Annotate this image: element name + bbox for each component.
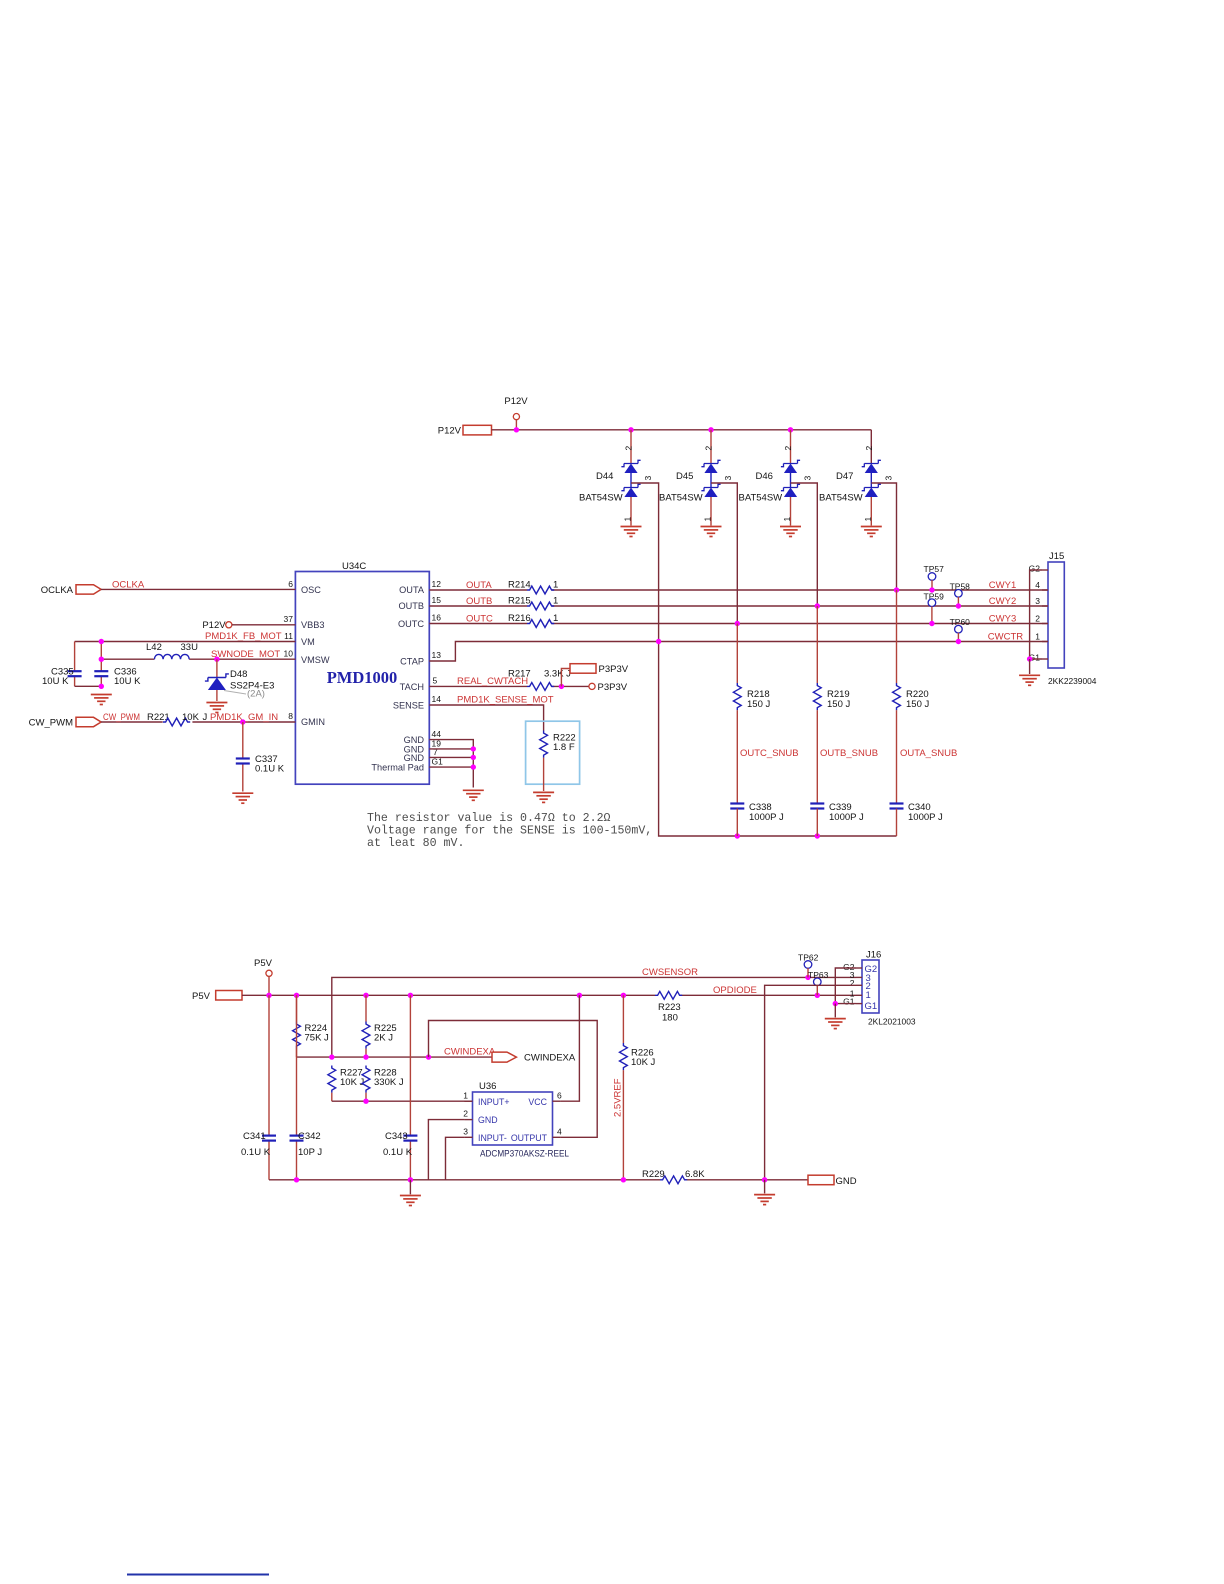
- svg-text:1: 1: [703, 517, 713, 522]
- wire CWSENSOR net: [332, 977, 856, 1057]
- diode D48 SS2P4-E3: [205, 659, 274, 701]
- svg-text:TACH: TACH: [400, 682, 424, 692]
- wire bottom GND bus: [269, 1179, 808, 1181]
- resistor R216 1: [508, 613, 558, 627]
- svg-text:2: 2: [783, 446, 793, 451]
- wire G1 ground stub: [1029, 659, 1031, 674]
- wire D45 pin3 elbow: [711, 483, 737, 624]
- resistor R222 1.8 F boxed: [526, 721, 580, 791]
- svg-text:15: 15: [432, 595, 442, 605]
- svg-text:L42: L42: [146, 642, 162, 653]
- resistor R221 10K J: [147, 712, 208, 726]
- svg-text:R214: R214: [508, 580, 531, 591]
- wire D46 pin3 elbow: [791, 483, 818, 606]
- svg-text:OCLKA: OCLKA: [112, 580, 145, 591]
- node rail junctions: [514, 427, 794, 432]
- svg-text:4: 4: [557, 1126, 562, 1136]
- svg-text:3: 3: [883, 476, 893, 481]
- svg-text:6.8K: 6.8K: [685, 1169, 705, 1180]
- svg-text:C342: C342: [298, 1131, 321, 1142]
- svg-text:CW_PWM: CW_PWM: [103, 712, 140, 723]
- svg-text:2: 2: [850, 978, 855, 988]
- svg-text:P3P3V: P3P3V: [598, 682, 628, 693]
- svg-text:CWINDEXA: CWINDEXA: [524, 1053, 576, 1064]
- svg-text:2KK2239004: 2KK2239004: [1048, 676, 1097, 686]
- svg-text:D47: D47: [836, 471, 853, 482]
- op-amp U34C PMD1000: [284, 561, 444, 784]
- wire P12V stub: [515, 420, 517, 430]
- svg-text:0.1U K: 0.1U K: [241, 1147, 271, 1158]
- svg-text:3.3K J: 3.3K J: [544, 669, 571, 680]
- wire VM net: [75, 641, 296, 643]
- capacitor C341 0.1U K: [241, 995, 276, 1180]
- svg-text:1000P J: 1000P J: [829, 812, 864, 823]
- svg-text:OPDIODE: OPDIODE: [713, 985, 757, 996]
- svg-text:2: 2: [864, 446, 874, 451]
- resistor R218 150 J: [733, 624, 770, 803]
- svg-text:11: 11: [284, 631, 293, 641]
- svg-text:BAT54SW: BAT54SW: [819, 493, 863, 504]
- svg-text:2: 2: [463, 1109, 468, 1119]
- svg-text:BAT54SW: BAT54SW: [739, 493, 783, 504]
- ground C336: [91, 695, 112, 705]
- svg-text:5: 5: [433, 676, 438, 686]
- svg-text:J: J: [203, 712, 208, 723]
- svg-text:CWY3: CWY3: [989, 614, 1016, 625]
- wire U36 OUTPUT pin4 loop: [429, 1021, 598, 1138]
- diode D46 BAT54SW: [739, 430, 813, 526]
- svg-text:PMD1K_SENSE_MOT: PMD1K_SENSE_MOT: [457, 695, 554, 706]
- wire OUTC net: [429, 623, 1048, 625]
- svg-text:ADCMP370AKSZ-REEL: ADCMP370AKSZ-REEL: [480, 1149, 569, 1160]
- svg-text:D45: D45: [676, 471, 693, 482]
- resistor R226 10K J: [620, 995, 656, 1180]
- svg-text:CWCTR: CWCTR: [988, 632, 1023, 643]
- wire D44 pin3 elbow: [631, 483, 659, 642]
- svg-text:BAT54SW: BAT54SW: [659, 493, 703, 504]
- svg-text:CWY1: CWY1: [989, 580, 1016, 591]
- svg-text:GND: GND: [478, 1115, 498, 1125]
- node P5V rail junctions: [266, 993, 820, 998]
- svg-text:75K J: 75K J: [305, 1033, 330, 1044]
- wire U36 VCC pin6: [561, 995, 580, 1101]
- svg-text:10K J: 10K J: [631, 1057, 656, 1068]
- power terminal P5V: [254, 958, 273, 976]
- svg-text:SWNODE_MOT: SWNODE_MOT: [211, 649, 280, 660]
- svg-text:1.8 F: 1.8 F: [553, 742, 575, 753]
- svg-text:16: 16: [432, 613, 442, 623]
- svg-text:G1: G1: [843, 996, 855, 1006]
- svg-text:P3P3V: P3P3V: [599, 664, 629, 675]
- svg-text:OCLKA: OCLKA: [41, 585, 74, 596]
- diode D47 BAT54SW: [819, 430, 893, 526]
- svg-text:R217: R217: [508, 669, 531, 680]
- svg-text:OUTB_SNUB: OUTB_SNUB: [820, 748, 878, 759]
- svg-text:INPUT-: INPUT-: [478, 1133, 507, 1143]
- svg-text:1: 1: [553, 613, 558, 624]
- node CWINDEXA junctions: [329, 1054, 431, 1059]
- svg-text:GND: GND: [404, 753, 425, 763]
- svg-text:1: 1: [553, 596, 558, 607]
- svg-text:1: 1: [782, 517, 792, 522]
- wire P3P3V stub: [561, 669, 570, 687]
- port P12V: [438, 425, 492, 436]
- wire snubber left vertical: [659, 642, 897, 837]
- svg-text:OUTC_SNUB: OUTC_SNUB: [740, 748, 799, 759]
- svg-text:150 J: 150 J: [906, 699, 929, 710]
- ground D46: [780, 527, 801, 537]
- svg-text:1: 1: [463, 1091, 468, 1101]
- wire OUTB net: [429, 605, 1048, 607]
- wire CWINDEXA row: [297, 1056, 493, 1058]
- svg-text:150 J: 150 J: [747, 699, 770, 710]
- svg-text:8: 8: [288, 711, 293, 721]
- capacitor C336 10U K: [94, 642, 141, 688]
- node TACH junction: [559, 684, 564, 689]
- svg-text:The resistor value is 0.47Ω to: The resistor value is 0.47Ω to 2.2Ω: [367, 812, 611, 825]
- power terminal P12V at VBB3: [202, 620, 232, 631]
- svg-text:10U K: 10U K: [114, 676, 141, 687]
- resistor R219 150 J: [813, 606, 850, 803]
- ground D44: [621, 527, 642, 537]
- ground U34C: [463, 790, 484, 800]
- svg-text:2: 2: [704, 446, 714, 451]
- wire GMIN net: [101, 721, 295, 723]
- svg-text:180: 180: [662, 1013, 678, 1024]
- connector J16 2KL2021003: [843, 950, 916, 1027]
- svg-text:OUTC: OUTC: [398, 619, 424, 629]
- op-amp U36 ADCMP370AKSZ-REEL: [463, 1081, 569, 1160]
- port CWINDEXA: [492, 1052, 576, 1064]
- svg-text:14: 14: [432, 694, 442, 704]
- svg-text:U36: U36: [479, 1081, 496, 1092]
- svg-text:OUTB: OUTB: [398, 601, 424, 611]
- wire SENSE net: [429, 705, 543, 731]
- svg-text:G2: G2: [1029, 564, 1041, 574]
- svg-text:R216: R216: [508, 613, 531, 624]
- resistor R223 180: [655, 991, 682, 1023]
- ground GND bus: [400, 1196, 421, 1206]
- resistor R214 1: [508, 580, 558, 594]
- wire U36 INPUT- pin3: [446, 1137, 465, 1180]
- svg-text:SENSE: SENSE: [393, 701, 424, 711]
- bottom blue line: [127, 1574, 269, 1576]
- capacitor C335 10U K: [42, 642, 82, 688]
- resistor R220 150 J: [893, 590, 930, 803]
- resistor R217 3.3K J: [508, 669, 571, 691]
- svg-text:1: 1: [623, 517, 633, 522]
- ground J16: [825, 1019, 846, 1029]
- svg-text:3: 3: [463, 1126, 468, 1136]
- resistor R215 1: [508, 596, 558, 610]
- note text: [367, 812, 652, 850]
- wire cap bottom: [75, 685, 102, 687]
- svg-text:J16: J16: [866, 950, 881, 961]
- port OCLKA: [41, 585, 101, 596]
- svg-text:G1: G1: [865, 1001, 878, 1012]
- testpoint TP63: [808, 970, 829, 995]
- testpoint TP59: [924, 592, 945, 627]
- svg-text:150 J: 150 J: [827, 699, 850, 710]
- ground C337: [232, 793, 253, 803]
- svg-text:3: 3: [643, 476, 653, 481]
- svg-text:CWY2: CWY2: [989, 596, 1016, 607]
- svg-text:1000P J: 1000P J: [908, 812, 943, 823]
- svg-text:2KL2021003: 2KL2021003: [868, 1017, 916, 1027]
- wire C343 ground stub: [409, 1180, 411, 1195]
- node GND junctions: [471, 746, 476, 770]
- svg-text:VCC: VCC: [528, 1097, 547, 1107]
- capacitor C337 0.1U K: [236, 722, 285, 792]
- svg-text:10K J: 10K J: [340, 1077, 365, 1088]
- svg-text:D48: D48: [230, 669, 247, 680]
- svg-text:0.1U K: 0.1U K: [383, 1147, 413, 1158]
- ground R222: [533, 792, 554, 802]
- svg-text:INPUT+: INPUT+: [478, 1097, 510, 1107]
- svg-text:1000P J: 1000P J: [749, 812, 784, 823]
- svg-text:GND: GND: [836, 1176, 857, 1187]
- svg-text:R223: R223: [658, 1002, 681, 1013]
- testpoint TP62: [798, 953, 819, 978]
- node OUT junctions with diodes: [656, 587, 899, 838]
- wire D47 pin3 elbow: [871, 483, 896, 590]
- svg-text:P5V: P5V: [254, 958, 273, 969]
- svg-text:C343: C343: [385, 1131, 408, 1142]
- svg-text:2K J: 2K J: [374, 1033, 393, 1044]
- svg-text:P12V: P12V: [504, 396, 528, 407]
- diode D44 BAT54SW: [579, 430, 653, 526]
- inductor L42 33U: [146, 642, 198, 659]
- ground J16 pin2: [754, 1195, 775, 1205]
- svg-text:12: 12: [432, 579, 442, 589]
- testpoint TP57: [924, 564, 945, 593]
- svg-text:OUTA: OUTA: [466, 580, 492, 591]
- node J16 G1 junction: [833, 1001, 838, 1006]
- svg-text:Voltage range for the SENSE is: Voltage range for the SENSE is 100-150mV…: [367, 824, 652, 837]
- wire P12V rail: [492, 429, 872, 431]
- capacitor C342 10P J: [290, 995, 323, 1180]
- svg-text:P12V: P12V: [202, 620, 226, 631]
- svg-text:CWINDEXA: CWINDEXA: [444, 1047, 496, 1058]
- svg-text:OUTA: OUTA: [399, 585, 425, 595]
- svg-text:3: 3: [803, 476, 813, 481]
- svg-text:37: 37: [284, 614, 294, 624]
- svg-text:10: 10: [284, 649, 294, 659]
- svg-text:3: 3: [1035, 596, 1040, 606]
- wire GND pins: [429, 740, 473, 788]
- wire J16 G2-G1: [835, 968, 856, 1004]
- svg-text:GMIN: GMIN: [301, 717, 325, 727]
- svg-text:OSC: OSC: [301, 585, 321, 595]
- svg-text:VM: VM: [301, 637, 315, 647]
- port P5V: [192, 991, 242, 1003]
- svg-text:2.5VREF: 2.5VREF: [613, 1078, 624, 1117]
- connector J15 2KK2239004: [1029, 551, 1097, 686]
- svg-text:VBB3: VBB3: [301, 620, 325, 630]
- testpoint TP58: [950, 582, 971, 609]
- wire U36 GND pin2: [428, 1120, 464, 1180]
- node R228 bottom junction: [363, 1099, 368, 1104]
- svg-text:3: 3: [723, 476, 733, 481]
- svg-text:OUTB: OUTB: [466, 596, 492, 607]
- svg-text:R229: R229: [642, 1169, 665, 1180]
- svg-text:C341: C341: [243, 1131, 266, 1142]
- svg-text:4: 4: [1035, 580, 1040, 590]
- wire J15 G2-G1: [1030, 570, 1042, 659]
- svg-text:OUTPUT: OUTPUT: [511, 1133, 548, 1143]
- port P3P3V: [570, 664, 629, 675]
- svg-text:1: 1: [863, 517, 873, 522]
- svg-text:2: 2: [1035, 614, 1040, 624]
- svg-text:330K J: 330K J: [374, 1077, 404, 1088]
- node TP62 junction: [805, 975, 810, 980]
- resistor R225 2K J: [362, 995, 397, 1057]
- svg-text:10K: 10K: [182, 712, 200, 723]
- wire CTAP net: [429, 642, 1048, 662]
- power terminal P12V: [504, 396, 528, 420]
- svg-text:33U: 33U: [181, 642, 199, 653]
- ground J15: [1019, 675, 1040, 685]
- wire J16 pin2 net: [765, 985, 856, 1180]
- port CW_PWM: [29, 717, 101, 728]
- svg-text:13: 13: [432, 650, 442, 660]
- resistor R227 10K J: [328, 1066, 365, 1102]
- svg-text:6: 6: [557, 1091, 562, 1101]
- svg-text:OUTA_SNUB: OUTA_SNUB: [900, 748, 957, 759]
- svg-text:R215: R215: [508, 596, 531, 607]
- svg-text:CW_PWM: CW_PWM: [29, 717, 73, 728]
- wire P5V rail / OPDIODE: [242, 994, 856, 996]
- svg-text:PMD1000: PMD1000: [327, 668, 398, 687]
- svg-text:OUTC: OUTC: [466, 614, 493, 625]
- resistor R228 330K J: [362, 1066, 404, 1102]
- svg-text:VMSW: VMSW: [301, 655, 330, 665]
- testpoint TP60: [950, 617, 971, 644]
- wire OUTA net: [429, 589, 1048, 591]
- svg-text:at leat 80 mV.: at leat 80 mV.: [367, 837, 464, 850]
- capacitor C338 1000P J: [730, 802, 784, 836]
- node GMIN junction: [240, 719, 245, 724]
- wire OCLKA net: [101, 588, 295, 590]
- svg-text:BAT54SW: BAT54SW: [579, 493, 623, 504]
- svg-text:6: 6: [288, 579, 293, 589]
- ground D45: [701, 527, 722, 537]
- ground D47: [861, 527, 882, 537]
- svg-text:1: 1: [553, 580, 558, 591]
- svg-text:1: 1: [866, 990, 871, 1001]
- svg-text:10P J: 10P J: [298, 1147, 322, 1158]
- svg-text:P5V: P5V: [192, 991, 211, 1002]
- wire TACH net: [429, 685, 589, 687]
- wire INPUT+ row: [332, 1100, 473, 1102]
- capacitor C339 1000P J: [810, 802, 864, 836]
- diode D45 BAT54SW: [659, 430, 733, 526]
- svg-text:U34C: U34C: [342, 561, 366, 572]
- svg-text:J15: J15: [1049, 551, 1064, 562]
- wire VBB3: [232, 624, 296, 626]
- svg-text:P12V: P12V: [438, 425, 462, 436]
- svg-text:CWSENSOR: CWSENSOR: [642, 967, 698, 978]
- resistor R224 75K J: [293, 995, 329, 1057]
- wire P5V stub: [268, 976, 270, 995]
- svg-text:(2A): (2A): [247, 689, 265, 700]
- svg-text:0.1U K: 0.1U K: [255, 764, 285, 775]
- ground D48: [206, 703, 227, 713]
- svg-text:CTAP: CTAP: [400, 657, 424, 667]
- power terminal P3P3V: [589, 682, 628, 693]
- wire J16 pin2 ground stub: [764, 1180, 766, 1194]
- svg-text:10U K: 10U K: [42, 676, 69, 687]
- wire J16 ground stub: [834, 1004, 836, 1018]
- node GND bus junctions: [294, 1177, 768, 1182]
- port GND: [808, 1175, 857, 1187]
- wire SWNODE segments: [101, 658, 295, 660]
- node G1 junction: [1027, 656, 1032, 661]
- capacitor C343 0.1U K: [383, 995, 417, 1180]
- svg-text:1: 1: [1035, 632, 1040, 642]
- svg-text:PMD1K_FB_MOT: PMD1K_FB_MOT: [205, 631, 282, 642]
- resistor R229 6.8K: [642, 1169, 705, 1184]
- svg-text:Thermal Pad: Thermal Pad: [371, 763, 424, 773]
- svg-text:2: 2: [624, 446, 634, 451]
- capacitor C340 1000P J: [890, 802, 943, 836]
- svg-text:D44: D44: [596, 471, 613, 482]
- svg-text:D46: D46: [756, 471, 773, 482]
- node VM junctions: [99, 639, 220, 689]
